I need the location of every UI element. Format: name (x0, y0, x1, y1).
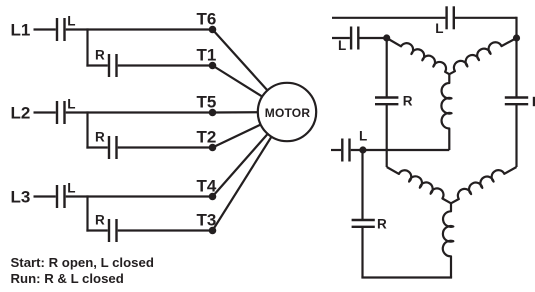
svg-text:R: R (95, 130, 105, 145)
wire terminal T1 to motor (213, 66, 288, 113)
wire R contact to terminal T2 (118, 146, 213, 148)
wire terminal T5 to motor (213, 111, 288, 114)
contact L (L1 branch), value L (57, 14, 75, 41)
inductor U1 winding A (upper wye, left leg) (387, 38, 450, 74)
contact R (right bus, cut off at edge), value R (505, 97, 535, 106)
node terminal T4 (junction dot) (209, 193, 217, 201)
svg-text:T5: T5 (197, 92, 217, 111)
node junction dot (upper-left feed / winding A) (383, 34, 390, 41)
contact R (lower branch), value R (352, 217, 387, 232)
wire L feed lower-left lead-in (331, 149, 341, 151)
svg-text:L3: L3 (11, 188, 31, 207)
wire R-branch horizontal lead (L1) (86, 64, 107, 66)
wire L feed upper-left lead-in (332, 37, 350, 39)
contact R (upper branch), value R (375, 94, 413, 109)
contact L (lower-left feed), value L (342, 129, 367, 162)
svg-text:L: L (359, 129, 367, 144)
node terminal T3 (junction dot) (209, 227, 217, 235)
node junction dot (lower-left feed / R branch) (359, 146, 366, 153)
svg-text:L: L (67, 14, 75, 29)
wire R-branch continuation through crossing to lower wye stub (386, 104, 388, 167)
wire L3 branch drop to R row (86, 195, 88, 231)
wire right bus upper segment (515, 17, 517, 98)
motor M1 (circle symbol) (258, 83, 316, 141)
contact L (upper-left feed), value L (338, 27, 358, 54)
contact L (top bus), value L (435, 6, 454, 36)
wire terminal T2 to motor (213, 112, 288, 148)
node terminal T2 (junction dot) (209, 144, 217, 152)
wire R-branch horizontal lead (L3) (86, 229, 107, 231)
wire R-branch drop (lower) (361, 150, 363, 220)
svg-text:L2: L2 (11, 104, 31, 123)
wire L2 lead-in (34, 111, 56, 113)
wire L3 contact to terminal T4 (66, 195, 213, 197)
inductor U2 winding C (lower wye, bottom leg) (443, 203, 454, 277)
node junction dot (right bus / winding B) (513, 34, 520, 41)
wire top bus (left half) (332, 17, 445, 19)
svg-text:R: R (95, 48, 105, 63)
svg-text:L: L (435, 21, 443, 36)
svg-text:MOTOR: MOTOR (265, 106, 311, 120)
svg-text:L: L (67, 97, 75, 112)
wire terminal T4 to motor (213, 112, 288, 197)
svg-text:T3: T3 (197, 210, 217, 229)
node terminal T5 (junction dot) (209, 109, 217, 117)
svg-text:T1: T1 (197, 45, 217, 64)
inductor U1 winding C (upper wye, bottom leg) (441, 74, 451, 150)
svg-text:T2: T2 (197, 127, 217, 146)
node terminal T6 (junction dot) (209, 26, 217, 34)
wire terminal T6 to motor (213, 30, 288, 113)
node terminal T1 (junction dot) (209, 62, 217, 70)
wire L2 branch drop to R row (86, 111, 88, 148)
wire R contact to terminal T3 (118, 229, 213, 231)
wire contact to junction dot (360, 37, 387, 39)
svg-text:R: R (403, 94, 413, 109)
svg-text:L: L (67, 181, 75, 196)
wire L2 contact to terminal T5 (66, 111, 213, 113)
wire bottom bus (361, 276, 452, 278)
wire L1 contact to terminal T6 (66, 28, 213, 30)
contact R (L2 branch), value R (95, 130, 117, 160)
svg-text:Start: R open, L closed: Start: R open, L closed (11, 255, 154, 270)
wire R-branch drop (upper) (386, 38, 388, 98)
contact R (L1 branch), value R (95, 48, 117, 78)
svg-text:L1: L1 (11, 21, 31, 40)
contact R (L3 branch), value R (95, 213, 117, 243)
wire right bus lower segment (515, 104, 517, 167)
inductor U2 winding B (lower wye, right leg) (451, 167, 517, 203)
svg-text:L: L (338, 38, 346, 53)
wire contact to upper wye bottom leg (351, 149, 450, 151)
wire terminal T3 to motor (213, 112, 288, 231)
wire R contact to bottom bus (361, 227, 363, 278)
wire L1 branch drop to R row (86, 28, 88, 66)
wire R-branch horizontal lead (L2) (86, 146, 107, 148)
svg-text:T6: T6 (197, 9, 217, 28)
wire top bus (right half) (455, 17, 517, 19)
inductor U1 winding B (upper wye, right leg) (449, 38, 516, 74)
contact L (L3 branch), value L (57, 181, 75, 208)
wire L1 lead-in (34, 28, 56, 30)
svg-text:R: R (377, 217, 387, 232)
svg-text:T4: T4 (197, 176, 217, 195)
wire L3 lead-in (34, 195, 56, 197)
svg-text:R: R (95, 213, 105, 228)
wire R contact to terminal T1 (118, 64, 213, 66)
contact L (L2 branch), value L (57, 97, 75, 124)
svg-text:Run: R & L closed: Run: R & L closed (11, 271, 124, 286)
inductor U2 winding A (lower wye, left leg) (387, 167, 451, 203)
